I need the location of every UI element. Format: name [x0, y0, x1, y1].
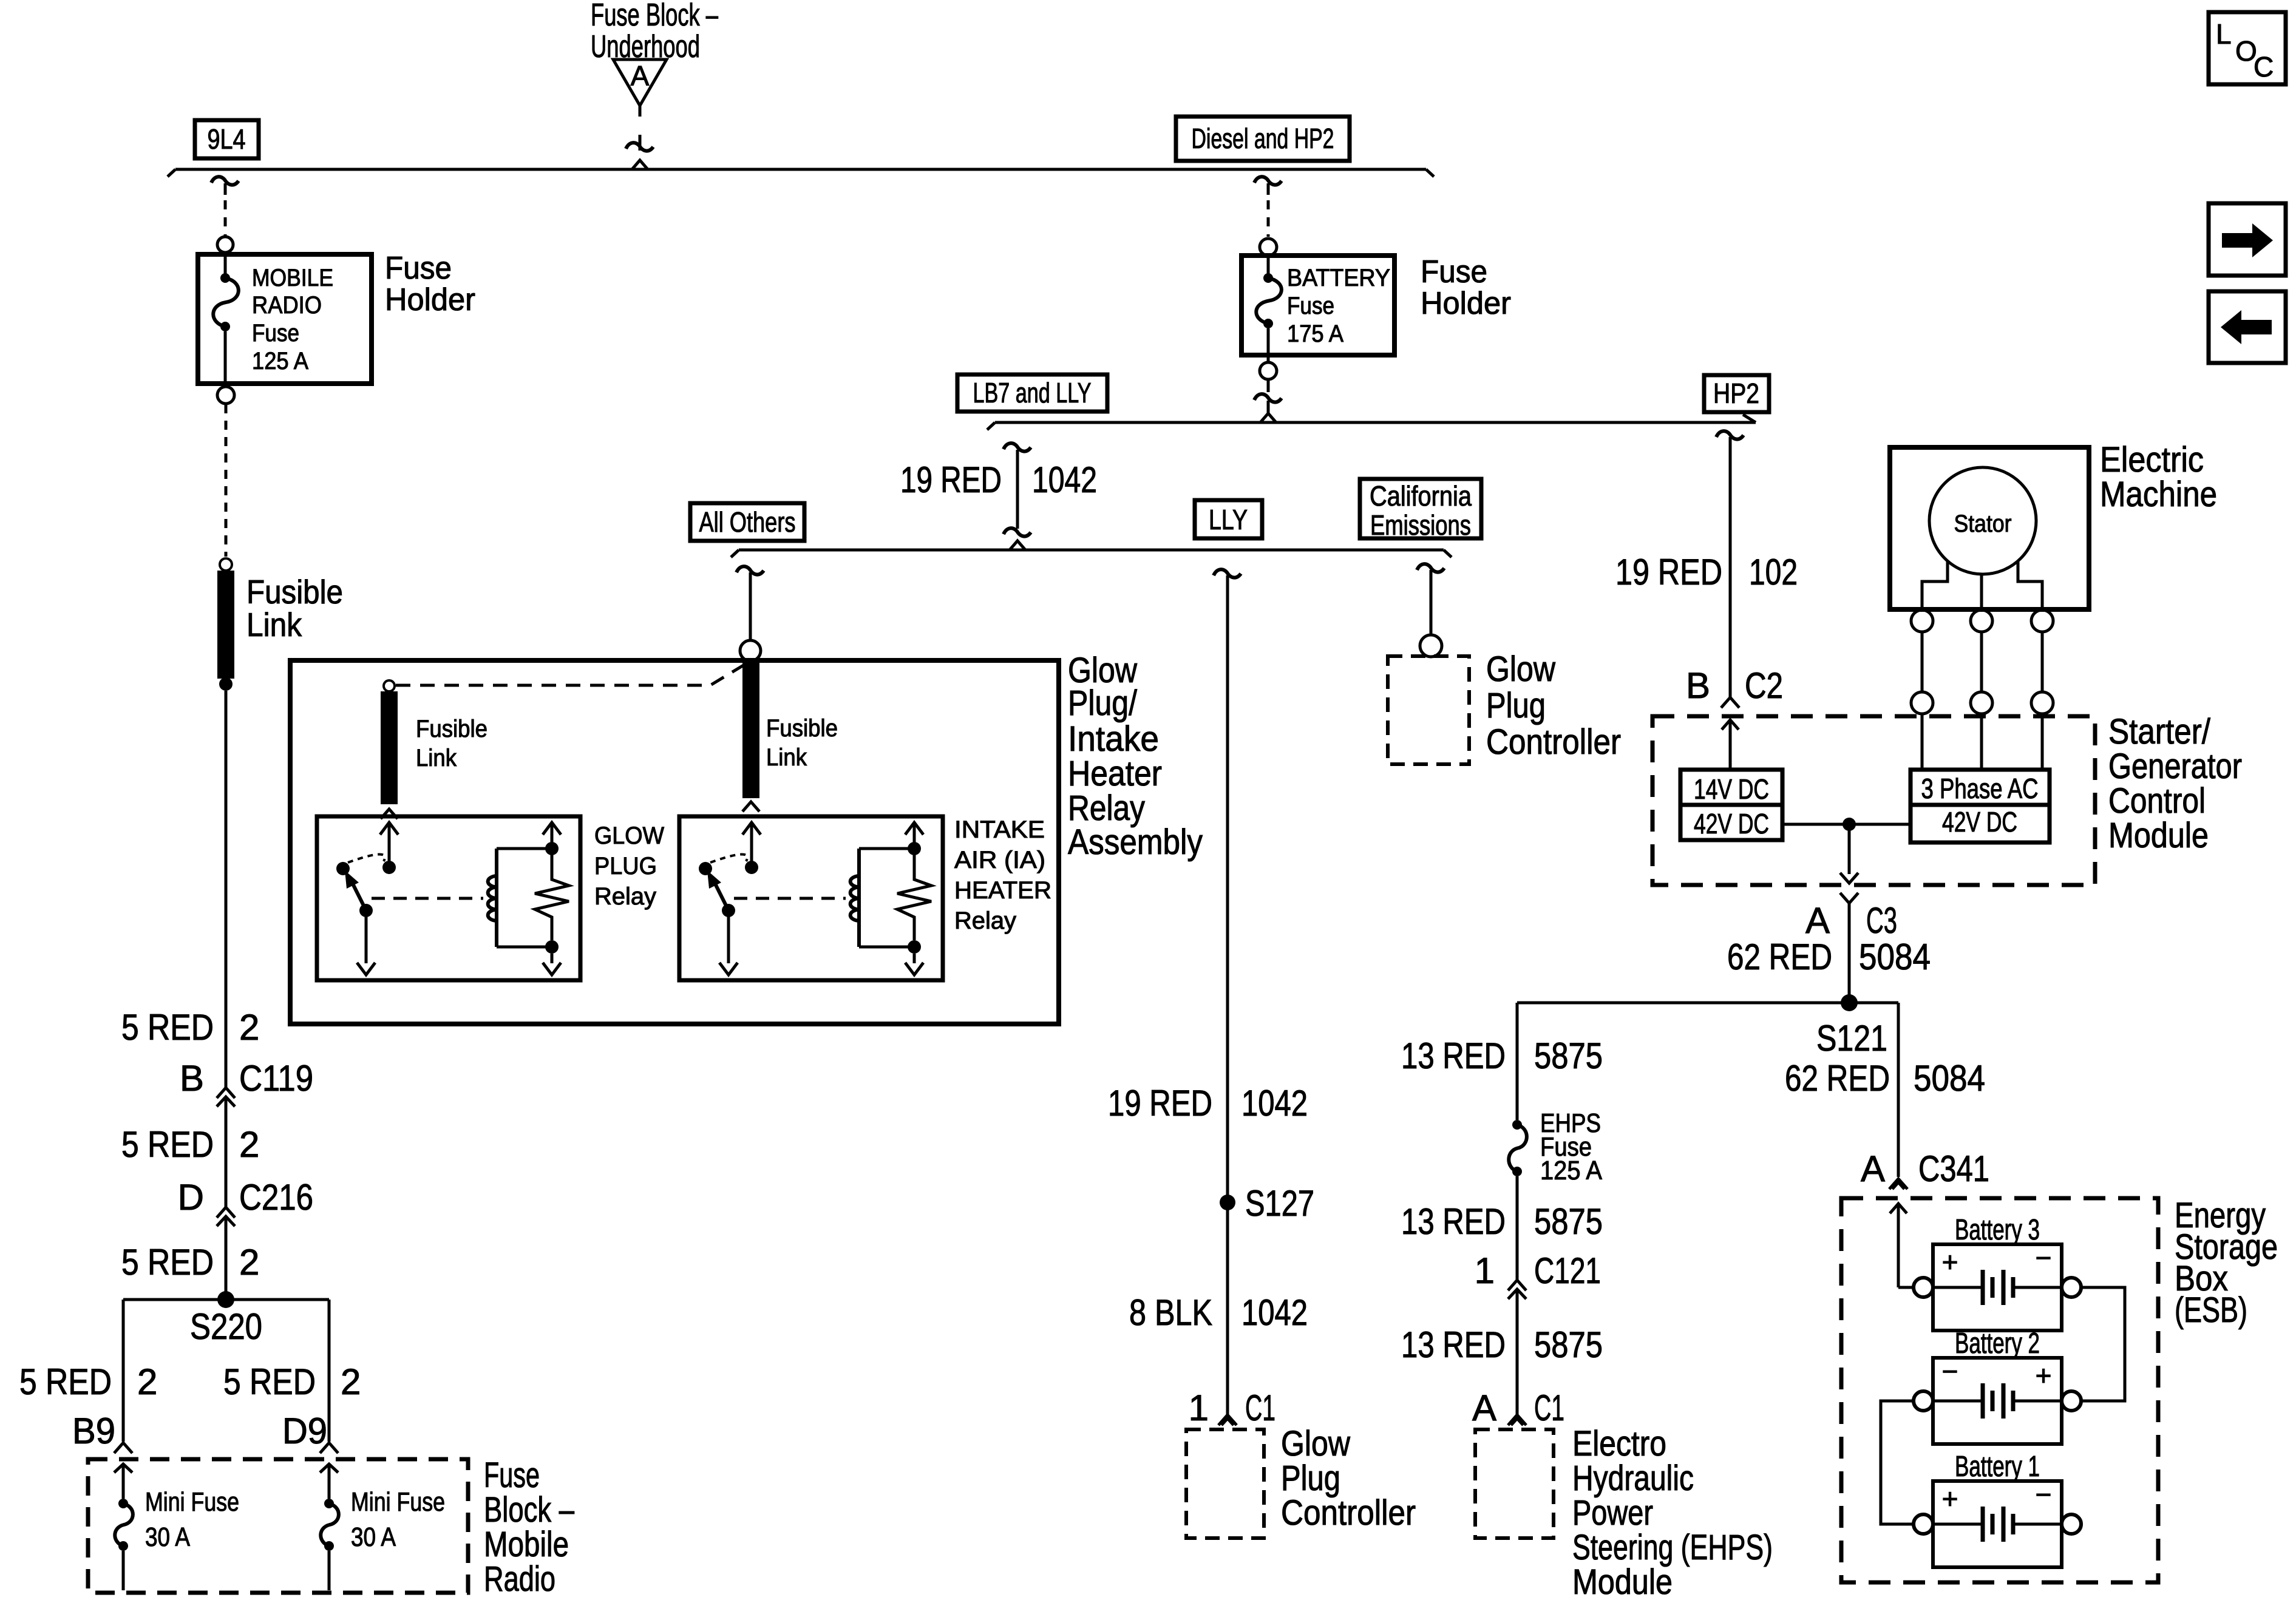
svg-text:Holder: Holder	[385, 282, 475, 317]
svg-text:1042: 1042	[1241, 1083, 1308, 1124]
svg-text:RADIO: RADIO	[252, 292, 322, 319]
wire S220 horizontal	[123, 1298, 329, 1301]
tag box HP2	[1704, 375, 1769, 412]
battery 3 right terminal circle	[2062, 1278, 2081, 1297]
relay assembly outer box	[290, 660, 1059, 1024]
svg-text:GLOW: GLOW	[594, 822, 664, 849]
wire between converter boxes	[1782, 823, 1911, 826]
svg-text:Relay: Relay	[954, 907, 1016, 934]
svg-text:1042: 1042	[1241, 1292, 1308, 1333]
power bus 1	[175, 168, 1426, 171]
svg-text:S121: S121	[1816, 1018, 1887, 1059]
wire 5 RED 2 left branch	[225, 691, 228, 1087]
svg-text:MOBILE: MOBILE	[252, 265, 333, 291]
junction bump 1042 on bus 3	[1010, 541, 1025, 550]
svg-text:Fusible: Fusible	[766, 715, 838, 742]
intake air heater relay resistor	[897, 855, 931, 940]
svg-text:D9: D9	[282, 1411, 327, 1451]
battery 3 box	[1933, 1244, 2062, 1331]
svg-text:Plug: Plug	[1281, 1459, 1340, 1498]
starter generator control module dashed box	[1652, 716, 2095, 885]
glow plug relay pivot contact dot	[336, 862, 350, 875]
svg-text:Mini Fuse: Mini Fuse	[145, 1487, 239, 1517]
intake air heater relay resistor bottom node dot	[908, 940, 921, 954]
svg-text:Block –: Block –	[484, 1490, 575, 1530]
intake air heater relay moving contact dot	[745, 861, 758, 874]
svg-text:Holder: Holder	[1421, 286, 1511, 321]
wire break squiggle under triangle	[639, 135, 642, 151]
dashed wire to battery fuse	[1267, 200, 1270, 237]
terminal circle fusible link top	[220, 558, 232, 571]
wire battery 2 to battery 1	[1881, 1401, 1914, 1524]
glow plug relay coil to resistor bottom wire	[497, 946, 552, 949]
svg-text:Power: Power	[1572, 1493, 1653, 1533]
intake air heater relay dashed throw arc	[710, 854, 747, 863]
phase wires into control module	[1921, 714, 1924, 770]
glow plug controller dashed box (California)	[1388, 656, 1469, 764]
glow plug relay coil	[495, 849, 498, 947]
connector C3	[1840, 893, 1858, 903]
tag box LLY	[1195, 500, 1262, 538]
svg-text:(ESB): (ESB)	[2175, 1290, 2247, 1330]
svg-text:C216: C216	[239, 1177, 313, 1218]
svg-text:5875: 5875	[1534, 1036, 1603, 1076]
wire 19 RED 1042 bus2 to bus3	[1016, 450, 1019, 529]
fusible link 2 (inside assembly)	[742, 661, 759, 798]
terminal circle fuse holder bottom	[217, 387, 234, 404]
phase terminal circles lower row	[1911, 692, 1933, 714]
svg-text:5084: 5084	[1859, 937, 1931, 977]
svg-text:C341: C341	[1918, 1148, 1989, 1189]
arrow right legend box	[2209, 203, 2286, 276]
EHPS fuse element	[1512, 1120, 1522, 1130]
svg-text:B9: B9	[72, 1411, 115, 1451]
svg-text:5875: 5875	[1534, 1201, 1603, 1242]
svg-text:13 RED: 13 RED	[1401, 1036, 1506, 1076]
svg-text:30 A: 30 A	[351, 1522, 396, 1552]
svg-text:B: B	[1686, 665, 1710, 706]
svg-text:Link: Link	[246, 606, 302, 643]
svg-text:1042: 1042	[1032, 459, 1097, 500]
power bus 2	[995, 421, 1756, 424]
svg-text:A: A	[1472, 1388, 1496, 1428]
svg-text:125 A: 125 A	[252, 348, 308, 375]
mini fuse B9	[114, 1464, 132, 1473]
wire 13 RED 5875 lower	[1516, 1303, 1519, 1414]
svg-text:2: 2	[239, 1007, 259, 1048]
svg-text:3 Phase AC: 3 Phase AC	[1921, 773, 2039, 804]
svg-text:62 RED: 62 RED	[1727, 937, 1832, 977]
stator phase lead left	[1922, 561, 1948, 609]
wire battery fuse to bus 2	[1267, 379, 1270, 392]
svg-text:INTAKE: INTAKE	[954, 816, 1045, 843]
wire C3 to S121	[1848, 903, 1851, 1003]
EHPS module dashed box	[1475, 1429, 1554, 1538]
svg-text:Mobile: Mobile	[484, 1525, 569, 1564]
svg-text:L: L	[2216, 18, 2232, 50]
svg-text:B: B	[180, 1058, 204, 1099]
svg-text:5 RED: 5 RED	[121, 1242, 214, 1283]
svg-text:−: −	[2036, 1242, 2052, 1273]
mobile radio fuse element	[224, 253, 227, 278]
svg-text:Radio: Radio	[484, 1559, 555, 1599]
svg-text:AIR (IA): AIR (IA)	[954, 847, 1045, 873]
svg-text:9L4: 9L4	[208, 123, 246, 155]
svg-text:Fuse: Fuse	[484, 1456, 540, 1495]
fusible link 1 (inside assembly)	[384, 680, 395, 691]
glow plug relay switch output wire with arrow	[365, 917, 368, 963]
svg-text:5 RED: 5 RED	[223, 1361, 316, 1402]
wire break squiggle LLY branch	[1214, 569, 1241, 577]
svg-text:C119: C119	[239, 1058, 313, 1099]
svg-text:Assembly: Assembly	[1068, 822, 1203, 862]
tag box California Emissions	[1360, 479, 1481, 538]
battery 2 cell symbol	[1933, 1400, 1981, 1403]
svg-text:Glow: Glow	[1281, 1424, 1351, 1463]
glow plug relay coil to resistor top wire	[497, 847, 552, 850]
wire LLY to glow plug controller	[1226, 575, 1229, 1414]
svg-text:Emissions: Emissions	[1370, 509, 1471, 541]
svg-text:Plug: Plug	[1486, 686, 1546, 725]
svg-text:Fuse Block –: Fuse Block –	[591, 0, 718, 33]
14V DC 42V DC converter box	[1680, 770, 1782, 840]
electric machine box	[1890, 447, 2089, 609]
svg-text:C1: C1	[1245, 1388, 1275, 1428]
wire break squiggle California Emissions branch	[1417, 564, 1444, 572]
svg-text:Control: Control	[2108, 781, 2206, 821]
wire S220 right leg	[328, 1300, 331, 1442]
svg-text:C2: C2	[1745, 665, 1783, 706]
battery 2 right terminal circle	[2062, 1391, 2081, 1411]
3 phase AC 42V DC converter box	[1911, 770, 2050, 842]
dashed wire 9L4 branch to fuse holder	[224, 200, 227, 237]
svg-text:BATTERY: BATTERY	[1287, 265, 1390, 291]
svg-text:Starter/: Starter/	[2108, 712, 2211, 751]
svg-text:Battery 1: Battery 1	[1955, 1451, 2040, 1483]
svg-text:Steering (EHPS): Steering (EHPS)	[1572, 1528, 1773, 1567]
dashed link between fusible links	[396, 664, 746, 685]
arrow left legend box	[2209, 291, 2286, 363]
svg-text:C1: C1	[1534, 1388, 1564, 1428]
wire 13 RED 5875 upper	[1516, 1003, 1519, 1120]
wire C2 into module	[1722, 720, 1739, 730]
stator phase lead right	[2018, 561, 2042, 609]
wire All Others to relay assembly	[749, 572, 752, 640]
svg-text:C3: C3	[1866, 900, 1897, 941]
svg-text:19 RED: 19 RED	[1615, 552, 1722, 592]
battery 1 cell symbol	[1933, 1523, 1981, 1526]
svg-text:Link: Link	[766, 744, 807, 771]
connector C341	[1889, 1179, 1907, 1189]
wire break squiggle battery branch	[1254, 177, 1282, 185]
intake air heater relay resistor top node dot	[908, 842, 921, 855]
wire break squiggle HP2 branch	[1716, 431, 1744, 439]
svg-text:42V DC: 42V DC	[1694, 808, 1769, 839]
battery 1 box	[1933, 1481, 2062, 1567]
connector C1 EHPS	[1508, 1415, 1526, 1425]
svg-text:2: 2	[341, 1361, 361, 1402]
tag box Diesel and HP2	[1176, 117, 1350, 161]
svg-text:19 RED: 19 RED	[900, 459, 1002, 500]
svg-text:Battery 3: Battery 3	[1955, 1214, 2040, 1246]
svg-text:Fusible: Fusible	[246, 573, 343, 611]
svg-text:D: D	[178, 1177, 204, 1218]
svg-text:+: +	[1942, 1483, 1958, 1514]
svg-text:5875: 5875	[1534, 1324, 1603, 1365]
svg-text:125 A: 125 A	[1540, 1156, 1603, 1185]
svg-text:A: A	[1861, 1148, 1885, 1189]
svg-text:42V DC: 42V DC	[1942, 806, 2017, 838]
intake air heater relay coil to resistor bottom wire	[859, 946, 914, 949]
svg-text:A: A	[1805, 900, 1830, 941]
svg-text:5084: 5084	[1914, 1058, 1985, 1099]
svg-text:LB7 and LLY: LB7 and LLY	[973, 377, 1092, 408]
intake air heater relay switch blade	[715, 883, 729, 910]
wire C341 into ESB	[1890, 1204, 1907, 1213]
wire from triangle to bus	[639, 106, 642, 117]
connector C121	[1508, 1280, 1526, 1290]
svg-text:Controller: Controller	[1281, 1493, 1416, 1533]
svg-text:Electro: Electro	[1572, 1424, 1666, 1463]
svg-text:Fuse: Fuse	[385, 251, 452, 286]
stator circle	[1929, 467, 2036, 574]
svg-text:5 RED: 5 RED	[121, 1124, 214, 1165]
LOC legend box	[2209, 12, 2286, 84]
svg-text:Generator: Generator	[2108, 747, 2242, 786]
svg-text:Electric: Electric	[2100, 440, 2204, 480]
svg-text:Plug/: Plug/	[1068, 683, 1138, 723]
battery fuse element	[1267, 256, 1270, 278]
intake air heater relay blade bottom dot	[722, 904, 735, 917]
svg-text:HEATER: HEATER	[954, 877, 1051, 904]
svg-text:2: 2	[137, 1361, 157, 1402]
glow plug relay resistor	[535, 855, 569, 940]
intake air heater relay box	[679, 816, 943, 980]
glow plug controller dashed box (bottom)	[1186, 1429, 1264, 1538]
svg-text:Heater: Heater	[1068, 754, 1162, 793]
svg-text:102: 102	[1749, 552, 1798, 592]
terminal circle relay assembly input	[740, 640, 761, 661]
wire break squiggle All Others branch	[736, 566, 764, 574]
tag box LB7 and LLY	[957, 375, 1107, 412]
fuse holder box (mobile radio fuse)	[198, 254, 372, 384]
intake air heater relay pivot contact dot	[699, 862, 712, 875]
svg-text:Stator: Stator	[1954, 510, 2012, 537]
svg-text:California: California	[1370, 480, 1472, 512]
svg-text:S220: S220	[190, 1306, 262, 1347]
svg-text:Diesel and HP2: Diesel and HP2	[1192, 123, 1334, 154]
junction dot below fusible link	[219, 677, 233, 691]
svg-text:Intake: Intake	[1068, 719, 1159, 759]
connector B9	[114, 1443, 132, 1453]
svg-text:Battery 2: Battery 2	[1955, 1327, 2040, 1360]
wire 19 RED 102	[1729, 437, 1732, 697]
splice S127	[1220, 1195, 1235, 1210]
battery fuse holder box	[1241, 256, 1394, 355]
stator phase lead middle	[1980, 574, 1983, 609]
svg-text:Glow: Glow	[1486, 649, 1556, 689]
svg-text:Hydraulic: Hydraulic	[1572, 1459, 1694, 1498]
svg-text:Machine: Machine	[2100, 475, 2217, 514]
energy storage box dashed box	[1841, 1198, 2158, 1582]
wire 13 RED 5875 middle	[1516, 1176, 1519, 1280]
wire break squiggle 9L4 branch	[211, 177, 239, 185]
glow plug relay box	[317, 816, 580, 980]
phase terminal circles upper row	[1911, 610, 1933, 632]
svg-text:S127: S127	[1245, 1183, 1314, 1224]
junction bump battery branch on bus 2	[1260, 413, 1276, 422]
terminal circle fuse holder top	[217, 237, 233, 253]
svg-text:14V DC: 14V DC	[1694, 773, 1769, 805]
junction dot converter output	[1843, 818, 1856, 831]
svg-text:Mini Fuse: Mini Fuse	[351, 1487, 445, 1517]
terminal circle controller (California)	[1420, 635, 1442, 657]
glow plug relay moving contact dot	[382, 861, 396, 874]
svg-text:2: 2	[239, 1242, 259, 1283]
wire battery 3 to battery 2	[2081, 1287, 2125, 1401]
battery 2 left terminal circle	[1914, 1391, 1933, 1411]
wire S220 left leg	[122, 1300, 125, 1442]
svg-text:Fuse: Fuse	[252, 320, 299, 347]
svg-text:1: 1	[1475, 1250, 1495, 1291]
svg-text:13 RED: 13 RED	[1401, 1201, 1506, 1242]
svg-text:HP2: HP2	[1713, 378, 1759, 409]
glow plug relay coil supply arrow	[543, 822, 561, 835]
splice S121	[1841, 994, 1858, 1011]
svg-text:Fusible: Fusible	[416, 716, 487, 742]
phase wires between terminal rows	[1921, 632, 1924, 692]
wire S121 to C341	[1897, 1003, 1900, 1177]
wire to battery 3	[1898, 1286, 1914, 1289]
glow plug relay switch common terminal arrow	[380, 822, 398, 835]
battery 1 left terminal circle	[1914, 1514, 1933, 1534]
svg-text:13 RED: 13 RED	[1401, 1324, 1506, 1365]
junction bump triangle branch on bus	[632, 160, 648, 169]
fusible link (left)	[217, 571, 234, 679]
terminal circle battery fuse bottom	[1260, 362, 1277, 379]
glow plug relay switch blade	[352, 883, 366, 910]
svg-text:5 RED: 5 RED	[19, 1361, 112, 1402]
fuse block mobile radio dashed box	[88, 1459, 468, 1593]
svg-text:Controller: Controller	[1486, 722, 1621, 762]
svg-text:175 A: 175 A	[1287, 320, 1343, 347]
svg-text:Relay: Relay	[594, 883, 656, 910]
svg-text:+: +	[2036, 1360, 2052, 1391]
intake air heater relay switch output wire with arrow	[727, 917, 730, 963]
svg-text:−: −	[1942, 1355, 1958, 1387]
svg-text:5 RED: 5 RED	[121, 1007, 214, 1048]
glow plug relay resistor bottom node dot	[545, 940, 559, 954]
svg-text:LLY: LLY	[1209, 504, 1248, 535]
battery 3 left terminal circle	[1914, 1278, 1933, 1297]
svg-text:C: C	[2254, 51, 2274, 83]
terminal circle battery fuse top	[1260, 239, 1277, 256]
glow plug relay coil return wire with arrow	[551, 954, 554, 963]
svg-text:Module: Module	[2108, 816, 2209, 855]
wire converter output down with arrow	[1848, 824, 1851, 874]
dashed wire to fusible link	[225, 404, 228, 557]
intake air heater relay switch common terminal arrow	[742, 822, 761, 835]
svg-text:2: 2	[239, 1124, 259, 1165]
svg-text:PLUG: PLUG	[594, 853, 657, 880]
svg-text:Link: Link	[416, 745, 457, 771]
battery 2 box	[1933, 1358, 2062, 1444]
svg-text:Fuse: Fuse	[1421, 254, 1487, 290]
svg-text:+: +	[1942, 1246, 1958, 1278]
glow plug relay resistor top node dot	[545, 842, 559, 855]
intake air heater relay coil to resistor top wire	[859, 847, 914, 850]
connector D9	[320, 1443, 338, 1453]
intake air heater relay coil supply arrow	[905, 822, 923, 835]
svg-text:62 RED: 62 RED	[1785, 1058, 1890, 1099]
power bus 3	[739, 549, 1444, 552]
glow plug relay dashed control line	[372, 897, 483, 900]
intake air heater relay coil	[857, 849, 861, 947]
svg-text:Module: Module	[1572, 1562, 1673, 1602]
svg-text:19 RED: 19 RED	[1108, 1083, 1212, 1124]
svg-text:Fuse: Fuse	[1287, 293, 1334, 319]
tag box All Others	[690, 503, 804, 541]
battery 1 right terminal circle	[2062, 1514, 2081, 1534]
splice S220	[217, 1291, 234, 1308]
svg-text:30 A: 30 A	[145, 1522, 191, 1552]
svg-text:8 BLK: 8 BLK	[1129, 1292, 1212, 1333]
mini fuse D9	[320, 1464, 338, 1473]
svg-text:All Others: All Others	[699, 506, 796, 538]
intake air heater relay coil return wire with arrow	[913, 954, 916, 963]
svg-text:C121: C121	[1534, 1250, 1601, 1291]
wire to glow plug controller (California)	[1430, 570, 1433, 635]
fuse block triangle symbol A	[613, 59, 667, 106]
svg-text:−: −	[2036, 1479, 2052, 1510]
tag box 9L4	[195, 120, 259, 158]
intake air heater relay dashed control line	[734, 897, 846, 900]
wire S121 horizontal	[1517, 1002, 1898, 1005]
battery 3 cell symbol	[1933, 1286, 1981, 1289]
svg-text:1: 1	[1189, 1388, 1209, 1428]
glow plug relay blade bottom dot	[359, 904, 373, 917]
glow plug relay dashed throw arc	[348, 854, 385, 863]
svg-text:A: A	[631, 60, 650, 92]
